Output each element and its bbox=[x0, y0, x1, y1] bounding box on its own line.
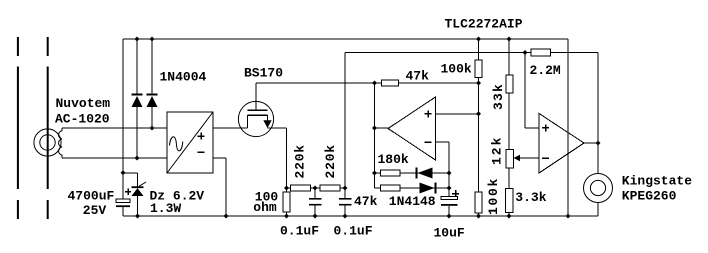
resistor R5 180k bbox=[381, 170, 401, 176]
wire: left vertical x=123 bbox=[122, 39, 124, 199]
diode D2 1N4004 bbox=[147, 94, 158, 108]
wire: vertical x=478.5 bbox=[478, 39, 480, 216]
svg-text:ohm: ohm bbox=[253, 200, 277, 215]
resistor R9 33k bbox=[506, 75, 513, 93]
node junction R9 33k / ground rail bbox=[507, 37, 512, 42]
node junction R8 / ground rail bbox=[476, 214, 481, 219]
node junction op-amp U1b output bbox=[596, 141, 601, 146]
svg-text:47k: 47k bbox=[354, 194, 378, 209]
node junction D3 / op-amp U1a - input bbox=[447, 171, 452, 176]
wire: vertical x=568 ground bbox=[567, 39, 569, 216]
svg-text:Kingstate: Kingstate bbox=[622, 174, 692, 189]
wire: op-amp2 output bbox=[584, 142, 598, 144]
svg-text:12k: 12k bbox=[490, 136, 505, 165]
node junction R4 47k / R7 100k bbox=[476, 81, 481, 86]
svg-text:100k: 100k bbox=[486, 177, 501, 215]
mains dashed line left bbox=[17, 37, 19, 219]
regulator U2 AC/DC block bbox=[167, 112, 213, 173]
op-amp U1b bbox=[539, 114, 584, 174]
wire: rail2 to op-amp2 + input bbox=[525, 53, 539, 129]
svg-text:1N4148: 1N4148 bbox=[389, 194, 436, 209]
node junction R3 / C3 / feedback rail bbox=[343, 186, 348, 191]
wire: resistor row y=188 bbox=[287, 187, 346, 189]
wire: cap C1 to ground rail bbox=[122, 207, 124, 216]
wire: secondary top to regulator bbox=[62, 127, 167, 129]
node junction op-amp U1a + input bbox=[476, 111, 481, 116]
wire: wiper to op-amp2 - input bbox=[520, 157, 539, 159]
capacitor C3 0.1uF bbox=[339, 188, 352, 216]
transformer secondary winding bbox=[59, 128, 62, 158]
capacitor C2 0.1uF bbox=[309, 188, 322, 216]
wire: oscillator node vertical x=374.5 bbox=[374, 83, 376, 188]
wire: gate line to oscillator bbox=[256, 82, 479, 84]
node junction R11 / ground rail bbox=[507, 214, 512, 219]
svg-text:KPEG260: KPEG260 bbox=[622, 188, 677, 203]
diode D3 1N4148 bbox=[416, 168, 433, 179]
svg-text:0.1uF: 0.1uF bbox=[280, 223, 319, 238]
node junction C2 / ground rail bbox=[313, 214, 318, 219]
svg-text:220k: 220k bbox=[293, 144, 308, 178]
svg-text:1.3W: 1.3W bbox=[150, 201, 181, 216]
resistor R4 47k gate bbox=[382, 80, 399, 86]
svg-text:0.1uF: 0.1uF bbox=[334, 223, 373, 238]
node junction regulator - / ground rail bbox=[224, 214, 229, 219]
node junction ground drop / ground rail bbox=[566, 214, 571, 219]
resistor R2 220k bbox=[291, 185, 311, 191]
node junction diode D2 / AC line 1 bbox=[150, 126, 155, 131]
node junction oscillator node / R5 180k bbox=[372, 171, 377, 176]
svg-text:33k: 33k bbox=[491, 83, 506, 110]
wire: zener branch bbox=[123, 173, 138, 216]
wire: bottom ground rail bbox=[123, 215, 598, 217]
diode D4 1N4148 bbox=[420, 183, 437, 194]
svg-text:Nuvotem: Nuvotem bbox=[56, 96, 111, 111]
wire: rail2 feedback line bbox=[345, 52, 598, 54]
wire: vertical x=345 bbox=[344, 53, 346, 189]
resistor R8 100k bottom bbox=[475, 192, 482, 213]
transistor Q1 BS170 bbox=[238, 83, 273, 137]
potentiometer R10 12k bbox=[506, 150, 520, 169]
node junction diode D1 / ground rail bbox=[135, 37, 140, 42]
node junction R2 R3 / C2 bbox=[313, 186, 318, 191]
resistor R1 100 ohm bbox=[283, 192, 290, 212]
wire: secondary bottom to regulator bbox=[62, 157, 167, 159]
diode D1 1N4004 bbox=[132, 94, 143, 108]
transformer T1 toroid bbox=[34, 129, 61, 156]
wire: regulator - output down bbox=[213, 158, 226, 216]
wire: op-amp1 output bbox=[375, 127, 389, 129]
mains dashed line right bbox=[47, 37, 49, 219]
wire: op-amp1 + input bbox=[436, 113, 479, 115]
svg-text:TLC2272AIP: TLC2272AIP bbox=[445, 16, 523, 31]
wire: regulator + output to MOSFET bbox=[213, 127, 248, 129]
wire: vertical x=598 output/speaker bbox=[597, 53, 599, 217]
wire: diode D1 vertical bbox=[136, 39, 138, 158]
capacitor C4 10uF bbox=[441, 190, 459, 216]
node junction R1 / ground rail bbox=[284, 214, 289, 219]
wire: top ground rail bbox=[123, 38, 568, 40]
op-amp U1a bbox=[388, 97, 436, 160]
node junction feedback rail / op-amp U1b + input bbox=[523, 50, 528, 55]
svg-text:25V: 25V bbox=[83, 203, 107, 218]
svg-text:4700uF: 4700uF bbox=[68, 189, 115, 204]
svg-text:3.3k: 3.3k bbox=[515, 190, 546, 205]
svg-text:AC-1020: AC-1020 bbox=[55, 112, 110, 127]
node junction R1 / R2 row bbox=[284, 186, 289, 191]
wire: row2 47k bbox=[375, 187, 450, 189]
wire: MOSFET source to 100ohm node bbox=[268, 128, 287, 216]
svg-text:2.2M: 2.2M bbox=[530, 63, 561, 78]
wire: op-amp1 - input bbox=[436, 142, 450, 197]
node junction diode D2 / ground rail bbox=[150, 37, 155, 42]
node junction op-amp U1a output bbox=[372, 126, 377, 131]
node junction zener / ground rail bbox=[135, 214, 140, 219]
node junction R7 100k / ground rail bbox=[476, 37, 481, 42]
svg-text:180k: 180k bbox=[378, 152, 409, 167]
wire: row1 180k bbox=[375, 172, 450, 174]
node junction gate line / oscillator node bbox=[372, 81, 377, 86]
resistor R12 2.2M bbox=[531, 49, 551, 56]
svg-text:BS170: BS170 bbox=[244, 66, 283, 81]
resistor R3 220k bbox=[320, 185, 340, 191]
svg-text:1N4004: 1N4004 bbox=[160, 70, 207, 85]
resistor R11 3.3k bbox=[506, 189, 514, 213]
capacitor C1 4700uF bbox=[116, 189, 131, 208]
resistor R6 47k bbox=[381, 185, 401, 191]
svg-text:10uF: 10uF bbox=[434, 226, 465, 241]
node junction C4 / ground rail bbox=[447, 214, 452, 219]
svg-text:220k: 220k bbox=[323, 144, 338, 178]
zener diode Dz 6.2V bbox=[132, 182, 147, 196]
svg-text:47k: 47k bbox=[406, 69, 430, 84]
node junction C3 / ground rail bbox=[343, 214, 348, 219]
svg-text:100k: 100k bbox=[441, 61, 472, 76]
node junction diode D1 / AC line 2 bbox=[135, 156, 140, 161]
wire: vertical x=509 bbox=[508, 39, 510, 216]
speaker LS1 KPEG260 bbox=[584, 174, 613, 203]
resistor R7 100k top bbox=[475, 60, 482, 78]
wire: diode D2 vertical bbox=[151, 39, 153, 128]
node junction C1 / zener branch bbox=[121, 170, 126, 175]
node junction D4 / C4 bbox=[447, 186, 452, 191]
